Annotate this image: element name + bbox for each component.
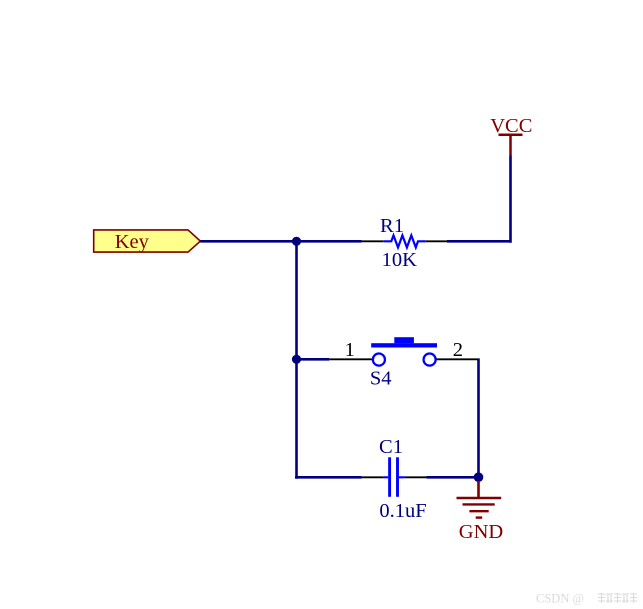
capacitor C1 pin 2 lead	[405, 476, 427, 478]
node C junction	[474, 472, 484, 482]
svg-text:GND: GND	[459, 521, 503, 543]
power symbol VCC bar	[499, 133, 523, 136]
wire node A down to node B	[295, 241, 298, 359]
svg-text:C1: C1	[379, 436, 403, 458]
svg-text:0.1uF: 0.1uF	[379, 500, 426, 522]
svg-text:2: 2	[453, 339, 463, 361]
wire S4 pin 2 down to node C	[477, 358, 480, 477]
svg-text:1: 1	[345, 339, 355, 361]
switch S4 body	[371, 337, 437, 365]
switch S4 pin 2 lead	[436, 358, 478, 360]
wire vertical up to VCC	[509, 156, 512, 243]
watermark CJK mock glyphs	[598, 593, 637, 603]
wire node B down to C1 corner	[295, 359, 298, 478]
ground bars	[457, 498, 502, 518]
power symbol VCC stub	[509, 135, 512, 156]
node A junction	[292, 237, 301, 246]
capacitor C1 body	[384, 457, 405, 497]
wire corner to C1 pin 1	[295, 476, 362, 479]
svg-text:R1: R1	[380, 215, 404, 237]
switch S4 pin 1 lead	[329, 358, 372, 360]
wire C1 pin 2 to node C	[427, 476, 479, 479]
wire node B to S4 pin 1	[297, 358, 330, 361]
ground stub	[477, 481, 480, 498]
capacitor C1 pin 1 lead	[362, 476, 384, 478]
svg-text:S4: S4	[370, 367, 392, 389]
svg-text:VCC: VCC	[490, 115, 532, 137]
svg-text:CSDN @: CSDN @	[536, 591, 584, 605]
wire node A to R1 pin 1	[297, 240, 362, 243]
svg-text:Key: Key	[115, 231, 150, 253]
wire Key to node A	[200, 240, 296, 243]
resistor R1 pin 2 lead	[426, 240, 447, 242]
node B junction	[292, 355, 301, 364]
port Key	[94, 230, 201, 252]
resistor R1 pin 1 lead	[362, 240, 384, 242]
wire R1 to VCC corner	[447, 240, 511, 243]
resistor R1 body	[383, 235, 426, 247]
svg-text:10K: 10K	[382, 249, 418, 271]
